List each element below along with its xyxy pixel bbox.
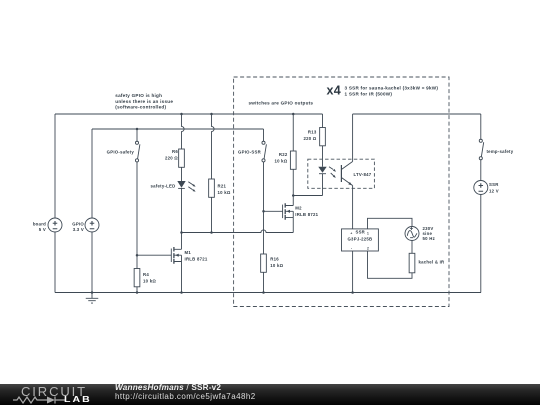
wire M1 drain link with hop (182, 218, 294, 233)
label M2 IRLB 8721 (295, 206, 318, 218)
junction SSR ground node (351, 291, 354, 294)
svg-text:5 V: 5 V (39, 227, 46, 232)
ground (86, 293, 99, 304)
resistor kachel load (409, 253, 415, 272)
svg-text:50 Hz: 50 Hz (423, 236, 435, 241)
junction M2 gate node (262, 210, 265, 213)
label R22 10k (274, 152, 287, 164)
CircuitLab logo LAB (64, 395, 92, 404)
voltage source board 5V (48, 218, 62, 232)
svg-text:(software-controlled): (software-controlled) (115, 105, 166, 110)
label R13 220ohm (303, 130, 316, 142)
svg-text:sine: sine (423, 231, 433, 236)
switch GPIO-SSR (262, 141, 266, 162)
svg-text:10 kΩ: 10 kΩ (274, 159, 287, 164)
wire opto node link (293, 195, 322, 197)
wire AC source to load (411, 241, 413, 254)
wire R22 bottom (292, 169, 294, 195)
label board 5V (33, 222, 46, 233)
svg-text:-: - (351, 247, 352, 251)
phototransistor opto (341, 162, 352, 186)
wire switch to SSR source (480, 160, 482, 181)
svg-text:230V: 230V (423, 226, 434, 231)
junction M1 gate node (136, 254, 139, 257)
svg-text:3.3 V: 3.3 V (73, 227, 84, 232)
svg-text:safety GPIO is high: safety GPIO is high (115, 93, 162, 98)
label SSR 12V (489, 182, 499, 194)
svg-text:GPIO: GPIO (72, 222, 84, 227)
wire board source branch (54, 114, 56, 293)
transistor M2 IRLB 8721 (283, 196, 294, 220)
svg-text:kachel & IR: kachel & IR (419, 260, 446, 265)
label R21 10k (218, 183, 231, 195)
wire to GPIO-safety switch (136, 129, 138, 141)
footer title WannesHofmans / SSR-v2 (115, 383, 221, 392)
svg-text:M2: M2 (295, 206, 302, 211)
wire M2 gate lead (264, 210, 283, 212)
wire to temp-safety switch (480, 114, 482, 139)
wire 5V top rail (55, 113, 323, 115)
svg-text:+: + (350, 231, 352, 235)
junction R22 top node (292, 113, 295, 116)
wire ground bottom rail (55, 292, 481, 294)
svg-text:LTV-847: LTV-847 (354, 172, 372, 177)
LED opto emitter diode (318, 167, 336, 178)
resistor R21 (209, 179, 215, 197)
svg-text:R4: R4 (143, 272, 149, 277)
svg-text:R21: R21 (218, 183, 227, 188)
label 230V sine 50Hz (423, 226, 435, 241)
wire M1 gate lead (137, 254, 171, 256)
svg-text:safety-LED: safety-LED (151, 183, 176, 188)
svg-text:12 V: 12 V (489, 189, 499, 194)
wire load back to SSR pin2 (368, 251, 413, 278)
svg-text:10 kΩ: 10 kΩ (270, 263, 283, 268)
svg-text:R6: R6 (172, 149, 178, 154)
svg-text:unless there is an issue: unless there is an issue (115, 99, 173, 104)
resistor R4 (134, 269, 140, 287)
junction node R21 top (210, 113, 213, 116)
footer bar (0, 384, 540, 405)
resistor R22 (290, 151, 296, 169)
label R6 220ohm (165, 149, 178, 161)
svg-text:M1: M1 (185, 250, 192, 255)
wire SSR pin1 to AC source (368, 218, 413, 229)
junction node R21 bottom (210, 231, 213, 234)
SSR module G3PJ-225B (342, 229, 379, 251)
svg-text:1: 1 (367, 231, 369, 235)
wire switch to gate node (136, 162, 138, 255)
footer url (115, 392, 256, 401)
svg-text:3 SSR for sauna-kachel (3x3kW: 3 SSR for sauna-kachel (3x3kW = 9kW) (345, 86, 439, 91)
annotation safety note (115, 93, 173, 110)
svg-text:board: board (33, 222, 46, 227)
junction node LED/M1 drain (180, 231, 183, 234)
junction opto node (292, 194, 295, 197)
wire opto collector up (352, 114, 354, 162)
resistor R6 (179, 149, 185, 167)
wire R16 bottom (263, 272, 265, 292)
label M1 IRLB 8721 (185, 250, 208, 262)
junction ground node (91, 291, 94, 294)
junction M1 source ground node (180, 291, 183, 294)
wire R6 to LED (181, 167, 183, 181)
wire SSR minus pin to ground rail (352, 251, 354, 293)
svg-text:IRLB 8721: IRLB 8721 (295, 212, 318, 217)
wire rail to GPIO-SSR switch (263, 129, 265, 141)
wire LED to drain node (181, 189, 183, 233)
svg-text:R16: R16 (270, 257, 279, 262)
label R16 10k (270, 257, 283, 269)
annotation SSR counts (345, 86, 439, 97)
voltage source GPIO 3.3V (85, 218, 99, 232)
wire R21 branch with hop over 3.3V rail (212, 114, 215, 179)
svg-text:G3PJ-225B: G3PJ-225B (347, 236, 372, 241)
svg-text:220 Ω: 220 Ω (165, 156, 178, 161)
label GPIO 3.3V (72, 222, 84, 233)
wire switch to M2 gate node (263, 162, 265, 211)
wire rail to R22 (292, 114, 294, 151)
voltage source 230V sine (405, 227, 419, 241)
wire 12V top rail (353, 113, 481, 115)
voltage source SSR 12V (474, 181, 488, 195)
resistor R16 (261, 254, 267, 272)
svg-text:10 kΩ: 10 kΩ (218, 190, 231, 195)
junction R4 ground node (136, 291, 139, 294)
svg-text:SSR: SSR (489, 182, 499, 187)
transistor M1 IRLB 8721 (171, 233, 181, 293)
resistor R13 (320, 128, 326, 146)
wire GPIO source branch (91, 129, 93, 293)
wire gate node to R16 (263, 211, 265, 254)
svg-text:R22: R22 (279, 152, 288, 157)
CircuitLab logo CIRCUIT (21, 384, 87, 399)
CircuitLab logo resistor and diode symbol (13, 396, 65, 404)
svg-text:IRLB 8721: IRLB 8721 (185, 257, 208, 262)
svg-text:GPIO-SSR: GPIO-SSR (238, 150, 262, 155)
LED safety-LED (177, 181, 195, 192)
junction GPIO-safety rail node (136, 128, 139, 131)
switch temp-safety (479, 139, 483, 160)
junction node R6 top (180, 113, 183, 116)
svg-text:R13: R13 (308, 130, 317, 135)
svg-text:switches are GPIO outputs: switches are GPIO outputs (249, 101, 314, 106)
wire gate node to R4 (136, 255, 138, 268)
wire R4 bottom (136, 287, 138, 293)
wire opto emitter down (352, 186, 354, 229)
wire R6 branch with hop over 3.3V rail (182, 114, 185, 149)
dashed box optocoupler LTV-847 (308, 159, 375, 188)
switch GPIO-safety (135, 141, 139, 162)
svg-text:1 SSR for IR (500W): 1 SSR for IR (500W) (345, 91, 393, 96)
wire opto LED cathode (322, 174, 324, 196)
svg-text:temp-safety: temp-safety (487, 149, 514, 154)
svg-text:2: 2 (367, 247, 369, 251)
svg-text:10 kΩ: 10 kΩ (143, 279, 156, 284)
svg-text:SSR: SSR (355, 230, 365, 235)
junction R16 ground node (262, 291, 265, 294)
svg-text:x4: x4 (327, 83, 341, 97)
svg-text:GPIO-safety: GPIO-safety (107, 150, 135, 155)
wire rail corner to R13 (322, 114, 324, 128)
wire SSR source to ground rail (480, 195, 482, 293)
dashed box x4 group (234, 77, 449, 307)
wire R21 bottom (211, 197, 213, 232)
label R4 10k (143, 272, 156, 284)
wire R13 to opto LED (322, 146, 324, 167)
wire 3.3V rail (92, 128, 264, 130)
svg-text:220 Ω: 220 Ω (303, 136, 316, 141)
